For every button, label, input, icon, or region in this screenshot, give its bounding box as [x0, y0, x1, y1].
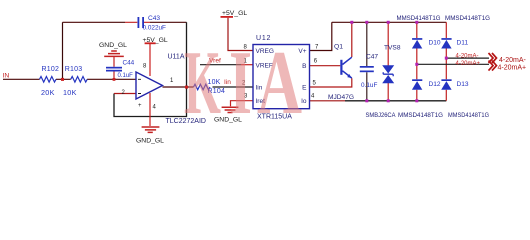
wire top feedback — [63, 21, 126, 23]
wire tap to 4-20mA minus — [446, 57, 489, 59]
node C44 junction — [113, 78, 116, 81]
svg-text:MMSD4148T1G: MMSD4148T1G — [445, 15, 490, 22]
node output junction — [185, 86, 188, 89]
wire top rail — [332, 21, 447, 23]
svg-text:7: 7 — [315, 45, 319, 51]
wire main input — [3, 78, 136, 80]
wire Iret to ground — [231, 101, 254, 107]
svg-text:4-20mA-: 4-20mA- — [499, 57, 527, 64]
svg-text:5: 5 — [313, 81, 317, 87]
resistor R104 — [194, 84, 210, 90]
svg-text:K: K — [184, 32, 221, 133]
wire Vref pin stub red — [241, 64, 253, 66]
diode D12 — [412, 81, 422, 90]
svg-text:1: 1 — [170, 78, 174, 84]
svg-text:0.1uF: 0.1uF — [361, 82, 377, 89]
svg-text:+5V_GL: +5V_GL — [222, 10, 247, 17]
node junction dots rails — [350, 21, 448, 103]
op-amp U11A — [136, 72, 163, 99]
svg-text:D12: D12 — [429, 81, 441, 88]
wire bottom rail Io — [310, 100, 346, 102]
svg-text:MJD47G: MJD47G — [328, 94, 354, 101]
wire R104 to pin2 — [213, 86, 254, 88]
svg-text:MMSD4148T1G: MMSD4148T1G — [398, 112, 443, 119]
capacitor C43 — [138, 17, 140, 28]
svg-text:4-20mA+: 4-20mA+ — [498, 65, 527, 72]
svg-text:4: 4 — [153, 105, 157, 111]
transistor Q1 — [340, 60, 342, 75]
svg-text:IN: IN — [3, 73, 10, 80]
watermark KIA — [184, 32, 302, 133]
svg-text:I: I — [229, 32, 252, 133]
wire TVS stems — [387, 22, 389, 101]
wire left diode column — [416, 22, 418, 101]
svg-text:SMBJ26CA: SMBJ26CA — [366, 112, 396, 119]
wire pin6 to Q1 base — [310, 65, 341, 67]
svg-text:4-20mA+: 4-20mA+ — [456, 61, 481, 67]
ground GND_GL at Iret — [222, 107, 239, 112]
svg-text:GND_GL: GND_GL — [136, 138, 164, 145]
wire op-amp V- stem — [149, 93, 151, 126]
wire pin7 riser — [310, 22, 332, 50]
svg-text:R102: R102 — [42, 66, 60, 73]
TVS diode TVS8 — [382, 65, 394, 73]
wire Q1 emitter to pin5 — [310, 78, 352, 87]
svg-text:U11A: U11A — [168, 54, 185, 61]
resistor R103 — [71, 77, 87, 83]
svg-text:4-20mA-: 4-20mA- — [456, 53, 479, 59]
svg-text:A: A — [257, 32, 302, 133]
svg-text:GND_GL: GND_GL — [99, 42, 127, 49]
wire C43 riser — [62, 22, 64, 79]
resistor R102 — [40, 77, 57, 83]
svg-text:0.022uF: 0.022uF — [143, 25, 167, 32]
node R102/R103 junction — [61, 78, 64, 81]
XTR pin names — [256, 48, 308, 105]
wire feedback loop black — [114, 22, 187, 116]
svg-text:20K: 20K — [41, 88, 55, 97]
wire op-amp inverting input — [114, 93, 136, 95]
svg-text:C43: C43 — [148, 15, 160, 22]
svg-text:D11: D11 — [457, 39, 469, 46]
IC U12 XTR115UA box — [253, 45, 310, 109]
svg-text:C47: C47 — [366, 54, 378, 61]
svg-text:Q1: Q1 — [334, 43, 343, 50]
svg-text:E: E — [302, 85, 307, 92]
wire +5V to pin8 — [228, 18, 253, 51]
wire op-amp output — [163, 86, 194, 88]
wire C47 stems — [366, 22, 368, 101]
svg-text:D13: D13 — [457, 81, 469, 88]
wire Q1 collector riser — [351, 22, 353, 57]
svg-text:B: B — [302, 63, 306, 70]
svg-text:6: 6 — [314, 59, 318, 65]
svg-text:TVS8: TVS8 — [384, 44, 401, 51]
connector chevrons — [489, 53, 497, 71]
wire Vref stub — [200, 64, 241, 66]
svg-text:R103: R103 — [65, 66, 83, 73]
capacitor C47 — [360, 66, 374, 68]
svg-text:10K: 10K — [63, 88, 77, 97]
svg-text:4: 4 — [311, 93, 315, 99]
diode D10 — [412, 40, 422, 49]
svg-text:MMSD4148T1G: MMSD4148T1G — [397, 15, 441, 22]
XTR pin numbers — [242, 45, 319, 100]
svg-text:+: + — [138, 103, 142, 109]
diode D11 — [441, 40, 451, 49]
wire op-amp V+ stem — [149, 44, 151, 76]
capacitor C44 — [106, 67, 122, 69]
wire tap to 4-20mA plus — [417, 63, 489, 65]
wire right diode column — [445, 22, 447, 101]
svg-text:8: 8 — [143, 64, 147, 70]
ground below op-amp — [142, 127, 160, 132]
diode D13 — [441, 81, 451, 90]
svg-text:0.1uF: 0.1uF — [118, 73, 134, 79]
svg-text:MMSD4148T1G: MMSD4148T1G — [448, 112, 489, 119]
svg-text:C44: C44 — [123, 60, 135, 67]
svg-text:D10: D10 — [429, 39, 441, 46]
